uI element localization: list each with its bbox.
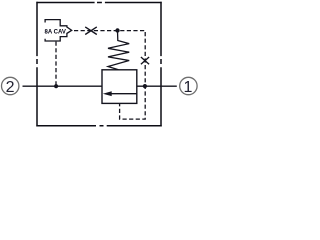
port 1 circle bbox=[180, 77, 197, 96]
svg-text:8A CAV: 8A CAV bbox=[45, 29, 66, 35]
vent dashed line (nose to corner, down right side, drain run back to valve) bbox=[74, 31, 145, 120]
flow arrow (normally closed path) bbox=[103, 91, 137, 96]
node on port 1 line bbox=[143, 84, 147, 88]
svg-text:2: 2 bbox=[6, 79, 15, 96]
relief valve body bbox=[102, 70, 137, 104]
cavity callout outline (stepped cartridge shape) bbox=[45, 20, 72, 41]
pilot dashed line from cavity to port 2 line bbox=[55, 42, 57, 87]
port 1 line bbox=[137, 85, 177, 87]
node: spring pilot junction bbox=[115, 28, 119, 32]
spring bbox=[108, 31, 129, 70]
svg-text:1: 1 bbox=[183, 79, 192, 96]
envelope frame (long-dash boundary) bbox=[36, 2, 161, 127]
node on port 2 line bbox=[54, 84, 58, 88]
plug X on right vent drop bbox=[141, 57, 149, 64]
plug X on vent line bbox=[85, 27, 97, 35]
port 2 line bbox=[23, 85, 103, 87]
port 2 circle bbox=[2, 77, 19, 96]
